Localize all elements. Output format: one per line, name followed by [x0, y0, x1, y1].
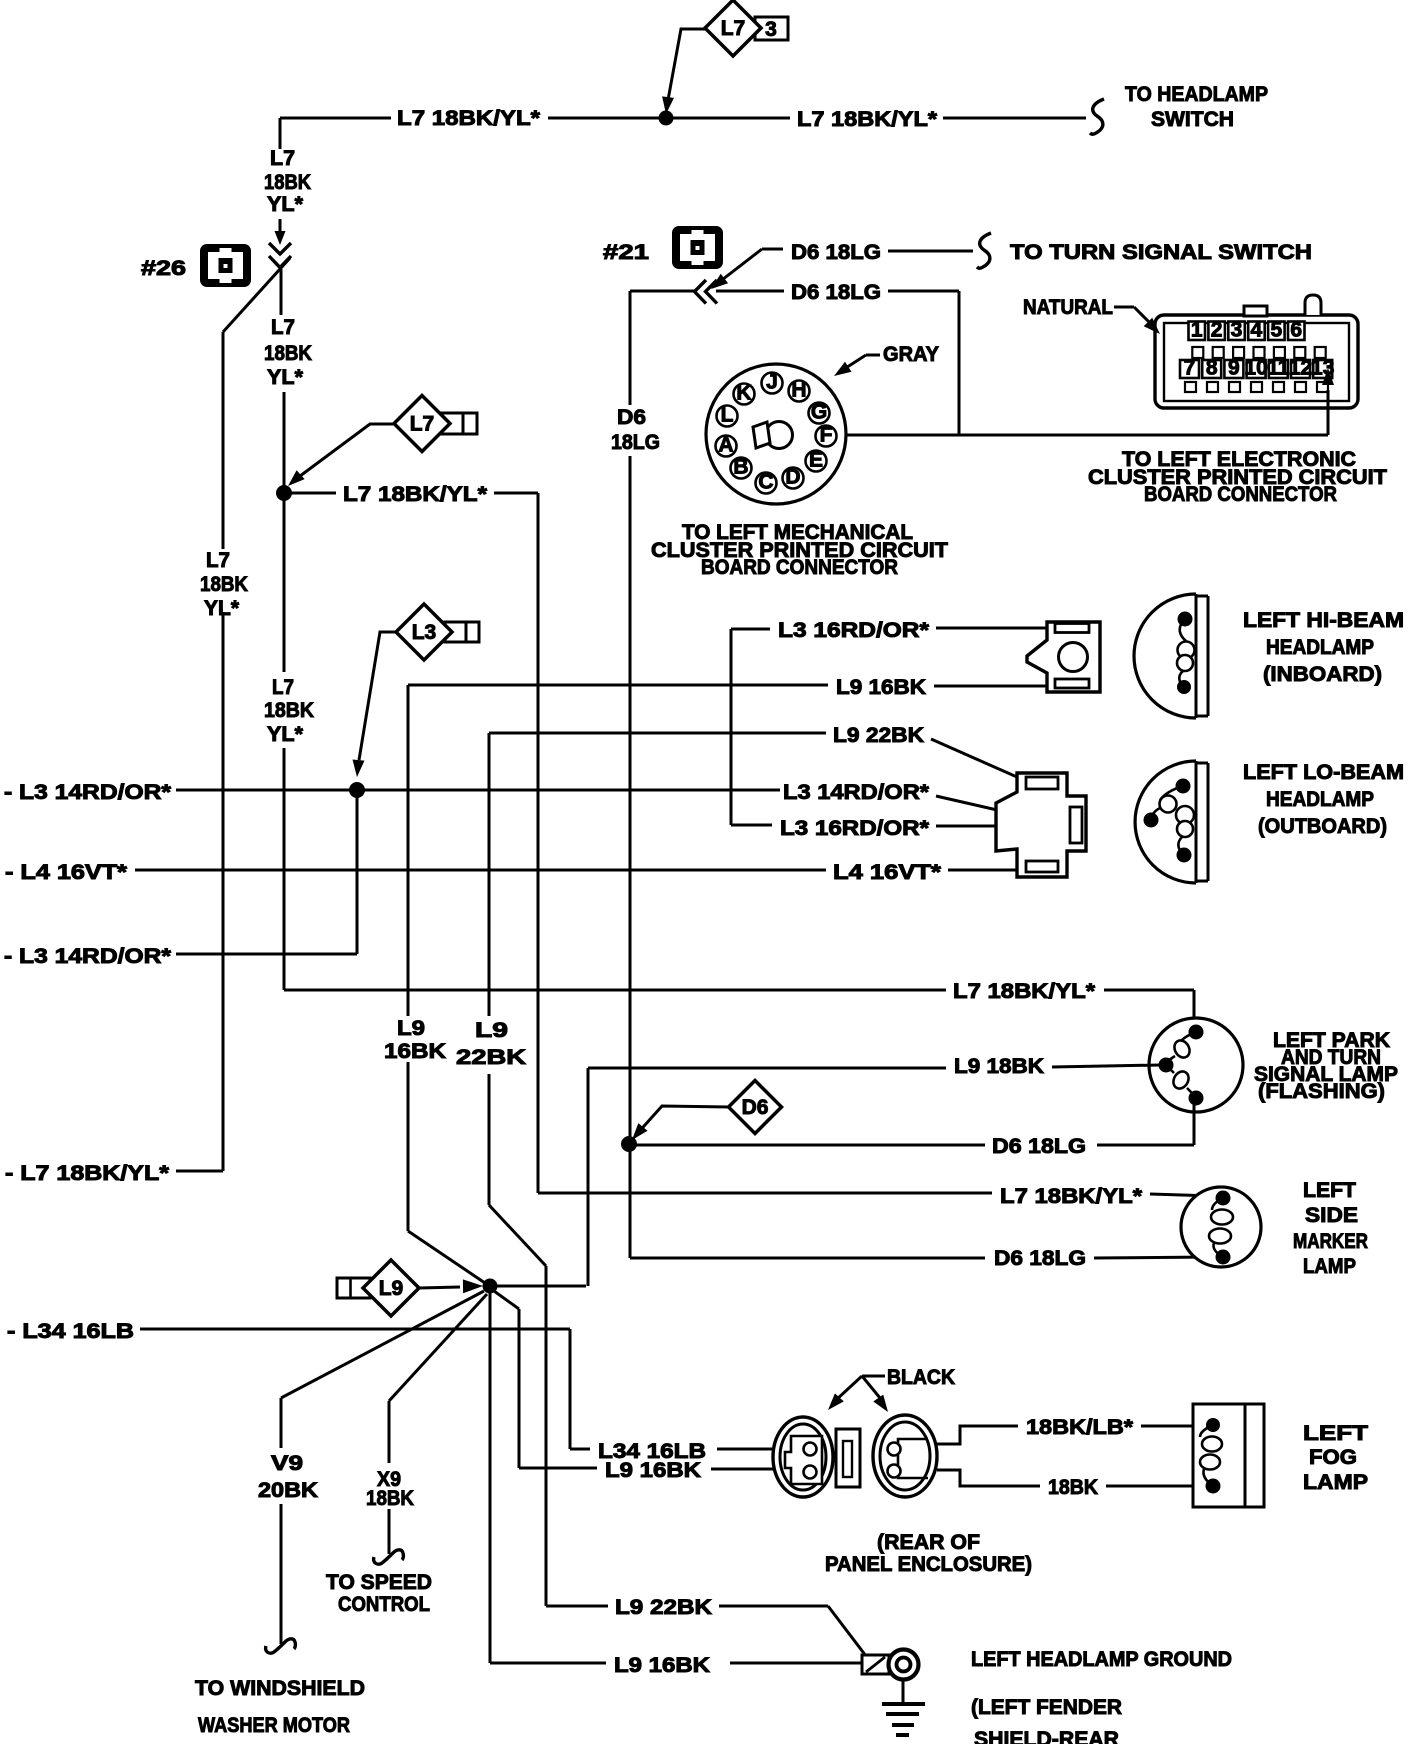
inline connector chevrons (wire break) at #21 — [695, 280, 718, 304]
splice symbol D6 (diamond callout) — [632, 1081, 782, 1141]
lamp: left fog lamp — [1193, 1404, 1264, 1507]
svg-text:WASHER MOTOR: WASHER MOTOR — [198, 1714, 350, 1737]
svg-text:13: 13 — [1311, 357, 1334, 380]
svg-text:LAMP: LAMP — [1303, 1471, 1368, 1494]
svg-text:L7 18BK/YL*: L7 18BK/YL* — [343, 483, 488, 506]
label L9 16BK (hi-beam) — [836, 676, 926, 699]
wire L9 splice to windshield washer (V9) — [281, 1291, 484, 1644]
wire L9 18BK to park lamp — [497, 1065, 1160, 1286]
svg-text:YL*: YL* — [267, 193, 304, 216]
lamp: left lo-beam headlamp (bulb symbol) — [1135, 761, 1208, 883]
label X9 18BK — [366, 1468, 414, 1510]
svg-text:16BK: 16BK — [384, 1040, 446, 1063]
svg-text:YL*: YL* — [204, 597, 240, 620]
svg-text:D6: D6 — [742, 1096, 769, 1119]
label L7 18BK YL* stack 3 — [264, 676, 314, 746]
svg-text:18BK: 18BK — [264, 342, 312, 365]
label L7 18BK YL* stack 1 — [264, 147, 311, 216]
wire 18BK/LB* fog feed — [935, 1426, 1206, 1444]
label L3 14RD/OR* (right) — [783, 781, 930, 804]
wire break to headlamp switch — [1090, 99, 1104, 134]
svg-text:L9 22BK: L9 22BK — [833, 724, 924, 747]
caption LEFT HI-BEAM HEADLAMP (INBOARD) — [1243, 609, 1404, 686]
svg-text:- L3 14RD/OR*: - L3 14RD/OR* — [4, 945, 172, 968]
label D6 18LG (side marker row) — [994, 1247, 1086, 1270]
svg-text:L7: L7 — [410, 413, 435, 436]
svg-text:L7: L7 — [272, 676, 294, 699]
svg-text:11: 11 — [1267, 357, 1290, 380]
caption TO LEFT MECHANICAL CLUSTER — [651, 521, 948, 579]
svg-text:2: 2 — [1211, 319, 1223, 342]
splice symbol L3 cavity 1 (diamond callout) — [353, 604, 480, 777]
connector: fog lamp mating rect — [836, 1429, 860, 1487]
wire D6 row2 left of chevron — [630, 290, 694, 293]
label L7 18BK/YL* (right) — [797, 108, 938, 131]
label - L34 16LB (left edge) — [7, 1320, 134, 1343]
svg-text:L7: L7 — [206, 549, 230, 572]
label - L3 14RD/OR* (left edge lower) — [4, 945, 172, 968]
wire L9 16BK vertical — [408, 685, 485, 1283]
label GRAY with leader — [834, 343, 939, 376]
svg-text:- L34 16LB: - L34 16LB — [7, 1320, 134, 1343]
svg-text:LEFT LO-BEAM: LEFT LO-BEAM — [1243, 761, 1404, 784]
label L4 16VT* (right) — [833, 861, 942, 884]
wire pin F to electronic cluster pin 13 — [845, 368, 1334, 435]
svg-text:L3 16RD/OR*: L3 16RD/OR* — [780, 817, 930, 840]
wire L9 22BK bottom row to ground — [546, 1606, 866, 1656]
caption LEFT FOG LAMP — [1303, 1422, 1368, 1494]
svg-text:E: E — [809, 449, 823, 472]
caption (LEFT FENDER SHIELD-REAR — [971, 1696, 1122, 1744]
svg-text:3: 3 — [1231, 319, 1243, 342]
ground: left headlamp ground terminal — [862, 1650, 919, 1680]
connector: left mechanical cluster PCB (round, gray) — [706, 364, 846, 504]
svg-text:TO WINDSHIELD: TO WINDSHIELD — [195, 1677, 365, 1700]
wire branch diagonal to left L7 run — [223, 258, 290, 332]
label L3 16RD/OR* (lo-beam) — [780, 817, 930, 840]
svg-text:D6 18LG: D6 18LG — [992, 1135, 1086, 1158]
svg-text:SHIELD-REAR: SHIELD-REAR — [974, 1728, 1119, 1744]
svg-text:LEFT: LEFT — [1303, 1422, 1368, 1445]
svg-text:(REAR OF: (REAR OF — [877, 1531, 980, 1554]
svg-text:LEFT HI-BEAM: LEFT HI-BEAM — [1243, 609, 1404, 632]
label #21 — [603, 241, 649, 264]
svg-text:CONTROL: CONTROL — [338, 1593, 430, 1616]
connector: lo-beam headlamp (3-cavity) — [996, 773, 1086, 877]
svg-text:L3 14RD/OR*: L3 14RD/OR* — [783, 781, 930, 804]
wire L3 14RD/OR* lower branch — [176, 790, 357, 954]
svg-text:D6 18LG: D6 18LG — [791, 241, 881, 264]
wire L34 16LB — [140, 1329, 775, 1449]
connector: hi-beam headlamp (2-cavity) — [1027, 622, 1100, 692]
svg-text:18BK: 18BK — [264, 699, 314, 722]
label D6 18LG (row 2) — [791, 281, 881, 304]
svg-text:L3 16RD/OR*: L3 16RD/OR* — [778, 619, 930, 642]
svg-text:NATURAL: NATURAL — [1023, 296, 1113, 319]
wire break to speed control — [374, 1550, 404, 1564]
wire L3 14RD/OR* horizontal — [176, 789, 780, 792]
wire break to turn signal switch — [977, 233, 991, 268]
svg-text:F: F — [820, 424, 833, 447]
svg-text:L7 18BK/YL*: L7 18BK/YL* — [953, 980, 1096, 1003]
lamp: left hi-beam headlamp (bulb symbol) — [1134, 594, 1208, 718]
svg-text:- L4 16VT*: - L4 16VT* — [5, 861, 128, 884]
label L9 22BK (bottom) — [615, 1596, 712, 1619]
wire D6 18LG to park lamp — [630, 1104, 1194, 1145]
svg-text:#21: #21 — [603, 241, 649, 264]
caption (REAR OF PANEL ENCLOSURE) — [825, 1531, 1032, 1576]
svg-text:FOG: FOG — [1309, 1446, 1357, 1469]
wire L4 16VT* — [135, 869, 1022, 872]
caption TO SPEED CONTROL — [326, 1571, 432, 1616]
svg-text:BOARD CONNECTOR: BOARD CONNECTOR — [701, 556, 898, 579]
svg-text:C: C — [758, 471, 773, 494]
svg-text:L: L — [721, 404, 734, 427]
svg-text:12: 12 — [1289, 357, 1312, 380]
svg-text:LAMP: LAMP — [1303, 1255, 1356, 1278]
svg-text:- L3 14RD/OR*: - L3 14RD/OR* — [4, 781, 172, 804]
svg-text:L7 18BK/YL*: L7 18BK/YL* — [797, 108, 938, 131]
svg-text:L7: L7 — [271, 316, 295, 339]
svg-text:18BK: 18BK — [264, 171, 311, 194]
svg-text:J: J — [766, 371, 778, 394]
svg-text:H: H — [791, 379, 806, 402]
svg-text:L7 18BK/YL*: L7 18BK/YL* — [1000, 1185, 1143, 1208]
svg-text:GRAY: GRAY — [883, 343, 939, 366]
wire L9 splice to speed control (X9) — [389, 1294, 487, 1554]
splice symbol L7 cavity 3 (diamond callout) — [662, 0, 788, 114]
svg-text:TO TURN SIGNAL SWITCH: TO TURN SIGNAL SWITCH — [1010, 241, 1312, 264]
label L7 18BK/YL* (side marker row) — [1000, 1185, 1143, 1208]
svg-text:V9: V9 — [271, 1452, 303, 1475]
inline connector symbol #21 — [672, 226, 723, 269]
label L7 18BK YL* stack 2 — [264, 316, 312, 389]
label 18BK/LB* — [1026, 1416, 1134, 1439]
wire L3 vertical riser x=731 — [730, 629, 733, 825]
svg-text:YL*: YL* — [267, 723, 304, 746]
label L34 16LB (fog row) — [598, 1440, 706, 1463]
svg-text:(FLASHING): (FLASHING) — [1258, 1080, 1385, 1103]
caption LEFT LO-BEAM HEADLAMP (OUTBOARD) — [1243, 761, 1404, 838]
wire L9 22BK vertical with jog — [489, 733, 546, 1606]
svg-text:TO HEADLAMP: TO HEADLAMP — [1125, 83, 1268, 106]
label 18BK — [1048, 1476, 1098, 1499]
wire L7 vertical below chevron — [281, 269, 284, 493]
svg-text:B: B — [733, 456, 748, 479]
label D6 18LG (park lamp row) — [992, 1135, 1086, 1158]
svg-text:7: 7 — [1184, 357, 1196, 380]
inline connector chevrons (wire break) at #26 — [269, 243, 291, 268]
svg-text:MARKER: MARKER — [1293, 1230, 1368, 1253]
svg-text:SIDE: SIDE — [1305, 1204, 1358, 1227]
svg-text:22BK: 22BK — [456, 1046, 526, 1069]
wire L7 left vertical run — [176, 332, 223, 1171]
svg-text:10: 10 — [1244, 357, 1267, 380]
label L9 16BK (fog row) — [605, 1459, 701, 1482]
connector: left electronic cluster PCB (13-pin, natural) — [1155, 295, 1358, 408]
svg-text:L4 16VT*: L4 16VT* — [833, 861, 942, 884]
junction dot D6 — [621, 1136, 637, 1152]
caption LEFT PARK AND TURN SIGNAL LAMP (FLASHING) — [1254, 1029, 1398, 1103]
svg-text:BOARD CONNECTOR: BOARD CONNECTOR — [1144, 483, 1337, 506]
svg-text:18BK: 18BK — [366, 1487, 414, 1510]
label L7 18BK/YL* (park lamp row) — [953, 980, 1096, 1003]
svg-text:18BK: 18BK — [1048, 1476, 1098, 1499]
svg-text:6: 6 — [1290, 319, 1302, 342]
svg-text:L7: L7 — [270, 147, 295, 170]
wire D6 row2 right of chevron — [716, 291, 959, 435]
junction dot L7 top — [659, 111, 674, 126]
wire arrow into connector 26 — [275, 219, 286, 245]
caption TO HEADLAMP SWITCH — [1125, 83, 1268, 131]
ground symbol (earth) — [882, 1680, 925, 1735]
wire L9 splice south branch to ground row — [490, 1293, 862, 1663]
label - L3 14RD/OR* (left edge) — [4, 781, 172, 804]
svg-text:L9 22BK: L9 22BK — [615, 1596, 712, 1619]
svg-text:20BK: 20BK — [258, 1479, 318, 1502]
svg-text:L9: L9 — [397, 1017, 425, 1040]
svg-text:L9: L9 — [379, 1277, 404, 1300]
svg-text:LEFT: LEFT — [1303, 1179, 1356, 1202]
label L9 22BK (lo-beam) — [833, 724, 924, 747]
inline connector symbol #26 — [200, 244, 251, 287]
svg-text:D: D — [785, 466, 800, 489]
wire L3 16RD/OR* to lo-beam — [731, 825, 1070, 826]
svg-text:3: 3 — [765, 18, 777, 41]
svg-text:1: 1 — [1191, 319, 1203, 342]
svg-text:L7 18BK/YL*: L7 18BK/YL* — [397, 107, 541, 130]
svg-text:(LEFT FENDER: (LEFT FENDER — [971, 1696, 1122, 1719]
wire D6 18LG to side marker — [630, 1144, 1212, 1258]
svg-text:L9 16BK: L9 16BK — [836, 676, 926, 699]
label - L4 16VT* (left edge) — [5, 861, 128, 884]
wire L7 vertical to park lamp corner — [284, 493, 1194, 1028]
splice symbol L7 cavity 1 (diamond callout) — [288, 396, 477, 487]
svg-text:G: G — [811, 401, 827, 424]
wire 18BK fog return — [937, 1470, 1206, 1486]
connector: fog lamp half (black oval, left) — [773, 1417, 833, 1497]
label L7 18BK YL* stack (left run) — [200, 549, 248, 620]
svg-text:8: 8 — [1206, 357, 1218, 380]
wire L7 18BK/YL* top horizontal — [280, 117, 1086, 120]
label - L7 18BK/YL* (left edge) — [5, 1162, 170, 1185]
svg-text:L9: L9 — [475, 1019, 508, 1042]
svg-text:5: 5 — [1270, 319, 1282, 342]
junction dot L3 — [349, 782, 365, 798]
svg-text:K: K — [736, 382, 751, 405]
wire break to windshield washer motor — [266, 1639, 296, 1653]
wire L7 18BK/YL* to right of junction — [284, 492, 538, 495]
svg-text:L7: L7 — [721, 17, 746, 40]
label L3 16RD/OR* (hi-beam) — [778, 619, 930, 642]
label L7 18BK/YL* (mid) — [343, 483, 488, 506]
connector: fog lamp half (black oval, right) — [873, 1415, 937, 1497]
label #26 — [141, 257, 186, 280]
lamp: left park and turn signal lamp — [1149, 1018, 1243, 1112]
svg-text:9: 9 — [1228, 357, 1240, 380]
svg-text:4: 4 — [1251, 319, 1263, 342]
label V9 20BK — [258, 1452, 318, 1502]
svg-text:D6: D6 — [617, 406, 646, 429]
svg-text:SWITCH: SWITCH — [1151, 108, 1234, 131]
svg-text:D6 18LG: D6 18LG — [994, 1247, 1086, 1270]
svg-text:L9 16BK: L9 16BK — [614, 1654, 710, 1677]
junction dot L7 mid — [276, 485, 292, 501]
svg-text:(INBOARD): (INBOARD) — [1263, 663, 1382, 686]
wire L3 16RD/OR* to hi-beam — [731, 628, 1051, 629]
label L9 16BK vertical stack — [384, 1017, 446, 1063]
svg-text:BLACK: BLACK — [887, 1366, 955, 1389]
caption LEFT SIDE MARKER LAMP — [1293, 1179, 1368, 1278]
svg-text:L34 16LB: L34 16LB — [598, 1440, 706, 1463]
label L9 16BK (ground row) — [614, 1654, 710, 1677]
label L9 18BK (park lamp) — [954, 1055, 1044, 1078]
svg-text:YL*: YL* — [267, 366, 304, 389]
label D6 18LG (row 1) — [791, 241, 881, 264]
label D6 18LG vertical stack — [611, 406, 660, 454]
svg-text:L9 18BK: L9 18BK — [954, 1055, 1044, 1078]
wire D6 row1 to switch — [888, 250, 973, 253]
svg-text:18BK: 18BK — [200, 573, 248, 596]
caption LEFT HEADLAMP GROUND — [971, 1648, 1232, 1671]
wire L7 18BK/YL* long vertical x=538 and to side marker — [538, 493, 1214, 1196]
wire L3 14RD diagonal to lo-beam middle slot — [936, 796, 1067, 826]
label L9 22BK vertical stack — [456, 1019, 526, 1069]
svg-text:TO SPEED: TO SPEED — [326, 1571, 432, 1594]
svg-text:D6 18LG: D6 18LG — [791, 281, 881, 304]
svg-text:#26: #26 — [141, 257, 186, 280]
junction dot L9 splice — [483, 1279, 498, 1294]
svg-text:(OUTBOARD): (OUTBOARD) — [1258, 815, 1387, 838]
wire L9 16BK to hi-beam — [408, 685, 1047, 686]
wire L9 splice to fog lamp feed (SE branch) — [494, 1291, 775, 1469]
svg-text:PANEL ENCLOSURE): PANEL ENCLOSURE) — [825, 1553, 1032, 1576]
wire D6 18LG long vertical — [629, 291, 632, 1144]
label L7 18BK/YL* (left) — [397, 107, 541, 130]
svg-text:HEADLAMP: HEADLAMP — [1266, 788, 1374, 811]
splice symbol L9 (diamond callout with pin box) — [337, 1260, 483, 1316]
svg-text:- L7 18BK/YL*: - L7 18BK/YL* — [5, 1162, 170, 1185]
lamp: left side marker lamp — [1181, 1187, 1261, 1267]
wire L7 vertical below corner — [279, 118, 282, 149]
svg-text:18LG: 18LG — [611, 431, 660, 454]
wire L9 22BK to lo-beam — [489, 733, 1026, 781]
wire D6 arrow from turn-signal row to splice — [711, 249, 783, 289]
caption TO TURN SIGNAL SWITCH — [1010, 241, 1312, 264]
label BLACK with fork leaders — [828, 1366, 955, 1412]
svg-text:LEFT HEADLAMP GROUND: LEFT HEADLAMP GROUND — [971, 1648, 1232, 1671]
svg-text:HEADLAMP: HEADLAMP — [1266, 636, 1374, 659]
svg-text:L3: L3 — [412, 621, 437, 644]
svg-text:18BK/LB*: 18BK/LB* — [1026, 1416, 1134, 1439]
caption TO LEFT ELECTRONIC CLUSTER — [1088, 448, 1387, 506]
caption TO WINDSHIELD WASHER MOTOR — [195, 1677, 365, 1737]
svg-text:A: A — [718, 434, 733, 457]
label NATURAL with leader — [1023, 296, 1160, 334]
